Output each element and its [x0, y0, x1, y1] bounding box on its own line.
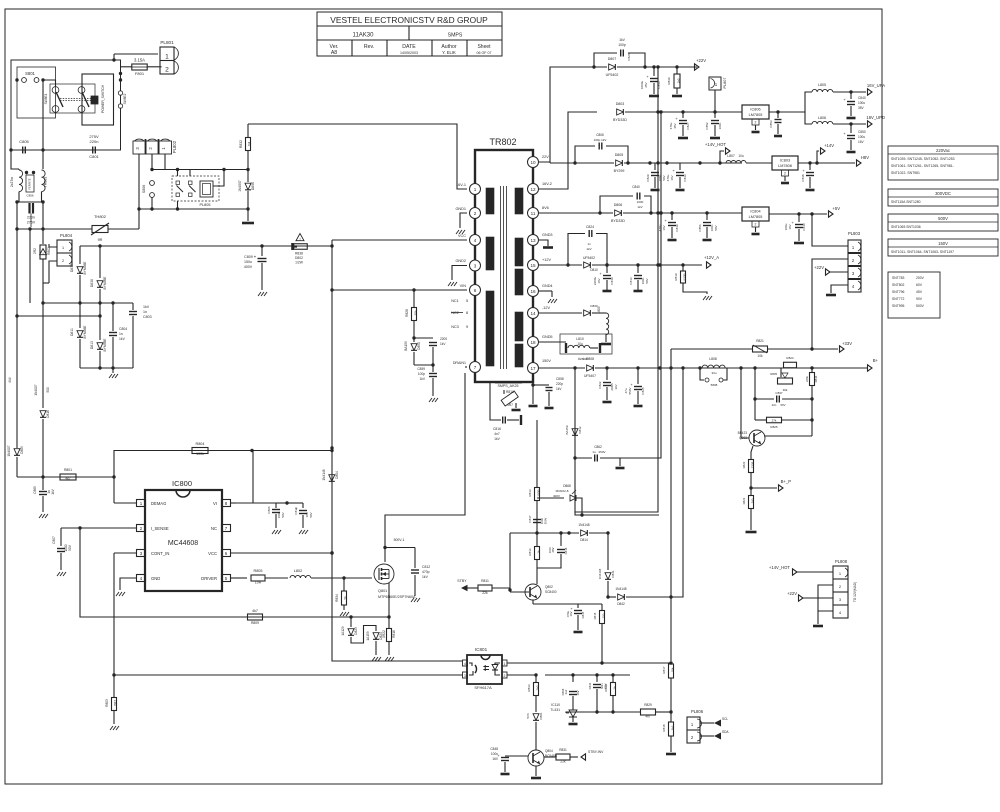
svg-text:1kV: 1kV [614, 384, 618, 389]
diode D806 1N4007 [245, 183, 251, 190]
svg-text:UF5402: UF5402 [583, 256, 595, 260]
svg-text:L809: L809 [597, 306, 601, 313]
resistor R818 2k2 [669, 722, 674, 736]
svg-text:C812: C812 [422, 565, 430, 569]
svg-text:D808: D808 [586, 357, 594, 361]
svg-text:25V: 25V [644, 82, 648, 87]
svg-text:C840: C840 [858, 96, 866, 100]
resistor R834 2k [343, 578, 345, 591]
svg-text:GND1: GND1 [455, 207, 466, 211]
svg-text:C822: C822 [598, 381, 602, 389]
wire +12V_A branch [660, 264, 702, 266]
wire Q803 base rail [741, 368, 749, 438]
svg-text:90V: 90V [916, 297, 923, 301]
diode D842 1N4148 [608, 596, 616, 598]
svg-text:220n: 220n [27, 216, 35, 220]
capacitor C812 470p 1kV [385, 547, 415, 549]
svg-text:2x27m: 2x27m [10, 177, 14, 187]
svg-text:4k7: 4k7 [252, 609, 258, 613]
table 220Vac models [888, 146, 998, 180]
svg-text:10k: 10k [414, 310, 418, 316]
wire opto output [507, 662, 671, 664]
wire PL802 pin2 [151, 154, 153, 170]
svg-text:10k: 10k [757, 354, 763, 358]
svg-text:1A129: 1A129 [341, 626, 345, 635]
wire CONT_IN rail [113, 553, 115, 675]
wire VCC [231, 552, 332, 554]
svg-text:S801: S801 [25, 71, 35, 76]
svg-text:I_SENSE: I_SENSE [151, 526, 169, 531]
capacitor C818 100n 28V [560, 533, 562, 546]
arrow +33V [840, 346, 845, 352]
wire PL802 pin1 [164, 154, 166, 170]
svg-text:47u: 47u [624, 388, 628, 393]
capacitor C819 NNn 50V loop [597, 674, 630, 676]
svg-text:BF423: BF423 [738, 431, 748, 435]
capacitor C860 220p 1kV [532, 382, 534, 388]
resistor R803 2M2 [113, 675, 115, 697]
svg-text:C865: C865 [33, 486, 37, 494]
capacitor C859 100p 1kV [432, 365, 434, 372]
svg-text:1k: 1k [613, 686, 617, 690]
svg-text:TR802: TR802 [489, 137, 516, 147]
table 500V models [888, 214, 998, 231]
wire Q802 base STBY [510, 591, 529, 593]
arrow +5V [829, 211, 834, 217]
transistor Q802 BC8400 [525, 584, 541, 600]
wire VCC rail vertical [332, 240, 462, 661]
svg-text:100k: 100k [196, 452, 204, 456]
mosfet Q801 MTP6N60E [374, 564, 394, 584]
TR801 ferrite core [26, 175, 34, 192]
svg-text:C833: C833 [683, 174, 687, 182]
svg-text:100u: 100u [491, 752, 498, 756]
svg-text:R825: R825 [770, 425, 778, 429]
svg-text:150: 150 [602, 613, 606, 618]
arrow +14V_HOT [718, 161, 721, 164]
svg-text:50V: 50V [68, 544, 72, 551]
svg-text:+22V: +22V [696, 58, 706, 63]
TR802 pin 1 16V-1 [470, 184, 481, 195]
svg-text:C839: C839 [675, 224, 679, 232]
wire 8V6 rail [539, 212, 613, 214]
svg-text:220p: 220p [556, 382, 563, 386]
capacitor C808 220n 275V [28, 203, 30, 214]
wire Q803 emitter divider [751, 446, 753, 460]
diode D809 1N4007 on left rail [14, 449, 20, 456]
svg-text:B+: B+ [873, 358, 879, 363]
IC801 led [495, 663, 500, 665]
svg-text:1kV: 1kV [422, 575, 429, 579]
svg-text:8V6: 8V6 [542, 206, 549, 210]
svg-text:R838: R838 [295, 252, 303, 256]
resistor R825 27k [755, 419, 766, 421]
svg-text:CONT_IN: CONT_IN [151, 551, 169, 556]
svg-text:SMPS: SMPS [448, 33, 463, 39]
svg-text:400V: 400V [244, 265, 253, 269]
svg-text:R809: R809 [251, 621, 259, 625]
resistor R801 4k7 [60, 474, 76, 480]
svg-text:IC806: IC806 [750, 108, 760, 112]
svg-text:1N4007: 1N4007 [34, 384, 38, 395]
resistor R824 [784, 362, 797, 368]
svg-text:C837: C837 [775, 391, 783, 395]
svg-text:200V: 200V [916, 276, 925, 280]
svg-text:IC803: IC803 [780, 159, 790, 163]
svg-text:C853: C853 [769, 120, 773, 128]
svg-text:C827: C827 [686, 122, 690, 130]
capacitor C822 2KB 1kV [606, 368, 608, 380]
svg-text:360: 360 [751, 498, 755, 503]
svg-text:L806: L806 [818, 116, 826, 120]
ground [666, 753, 676, 756]
svg-text:250V: 250V [598, 450, 605, 454]
svg-text:LM7808: LM7808 [778, 164, 792, 168]
svg-text:14: 14 [530, 311, 536, 316]
svg-text:100n: 100n [718, 122, 722, 129]
capacitor C804 1n 1kV [112, 330, 114, 331]
svg-text:16: 16 [530, 289, 536, 294]
svg-text:7: 7 [474, 365, 477, 370]
capacitor C806b 100p 1kV bypass [575, 146, 595, 163]
svg-text:22V: 22V [542, 155, 549, 159]
svg-text:R822: R822 [742, 461, 746, 468]
svg-text:R813: R813 [528, 489, 532, 497]
svg-text:D803: D803 [616, 102, 625, 106]
svg-text:14/05/2003: 14/05/2003 [400, 51, 418, 55]
svg-text:STBY: STBY [457, 579, 467, 583]
TR802 pin 3 GND2 [470, 260, 481, 271]
svg-text:BA159: BA159 [404, 341, 408, 351]
wire sense vertical [536, 420, 538, 475]
capacitor C803b 2u2 16V [572, 675, 574, 682]
svg-text:45V: 45V [916, 290, 923, 294]
svg-text:GND5: GND5 [542, 335, 553, 339]
svg-text:PL805: PL805 [200, 203, 211, 207]
svg-text:+14V_HOT: +14V_HOT [705, 142, 727, 147]
svg-text:1kV: 1kV [420, 377, 426, 381]
svg-text:R810: R810 [506, 390, 514, 394]
IC800 pin 6 VCC [222, 550, 231, 557]
TR802 pin 12 16V-2 [528, 184, 539, 195]
diode D850 BA159 [411, 344, 417, 351]
wire snubber bottom [414, 364, 433, 366]
svg-text:220R: 220R [751, 462, 755, 469]
resistor R817 10k [669, 664, 674, 678]
svg-text:275V: 275V [27, 221, 36, 225]
svg-text:R804: R804 [195, 442, 204, 446]
svg-text:1N4148: 1N4148 [578, 523, 589, 527]
wire PL806 pin2 SDA [700, 735, 714, 737]
svg-text:R833: R833 [527, 684, 531, 692]
inductor L810 10u [560, 334, 612, 354]
svg-text:2M2: 2M2 [114, 700, 118, 706]
wire PL808 grounds [818, 585, 833, 611]
svg-text:L807: L807 [727, 154, 735, 158]
svg-text:22k: 22k [560, 760, 566, 764]
ground [411, 598, 414, 602]
svg-text:R823: R823 [742, 497, 746, 504]
diode D808 UF5407 [587, 365, 594, 371]
svg-text:1000u: 1000u [640, 80, 644, 89]
svg-text:220Vac: 220Vac [936, 148, 950, 153]
svg-text:16V-1: 16V-1 [456, 183, 466, 187]
svg-text:500: 500 [46, 387, 50, 393]
svg-text:1kV: 1kV [440, 342, 446, 346]
svg-text:MTP6N60E/2SP7N60A: MTP6N60E/2SP7N60A [378, 595, 416, 599]
svg-text:C850: C850 [858, 130, 866, 134]
svg-text:D811: D811 [70, 328, 74, 336]
resistor R813 100R [536, 475, 538, 487]
svg-text:D806: D806 [251, 182, 255, 190]
wire Q803 left rail [754, 368, 756, 420]
svg-text:D838: D838 [90, 279, 94, 287]
svg-text:6: 6 [474, 288, 477, 293]
svg-text:1kV: 1kV [586, 247, 591, 251]
svg-text:1000: 1000 [637, 200, 644, 204]
svg-text:TO 12V(MAD): TO 12V(MAD) [853, 582, 857, 602]
svg-text:400V: 400V [553, 494, 560, 498]
connector PL807 [709, 77, 721, 90]
capacitor C845 470u 16V [533, 603, 578, 605]
diode D805 BY299 [616, 160, 623, 166]
svg-text:VESTEL ELECTRONICSTV R&D GROUP: VESTEL ELECTRONICSTV R&D GROUP [330, 15, 488, 25]
svg-text:5: 5 [466, 299, 468, 303]
svg-text:SNT802: SNT802 [892, 283, 905, 287]
svg-text:2: 2 [755, 223, 757, 227]
svg-text:D802: D802 [295, 256, 303, 260]
svg-text:150u: 150u [244, 260, 252, 264]
capacitor C825 550V 47u [637, 368, 639, 384]
wire 16V-2 rail [539, 112, 597, 189]
arrow 16V_UPD [868, 121, 873, 127]
IC801 pins [463, 660, 468, 666]
wire I_SENSE [61, 527, 136, 529]
resistor R831 22k [544, 756, 556, 758]
svg-text:C804: C804 [119, 327, 127, 331]
wire R804 feedback [114, 450, 332, 452]
pot R835 30k [780, 368, 782, 377]
svg-text:1N4007: 1N4007 [7, 445, 11, 456]
svg-text:+14V: +14V [824, 143, 834, 148]
svg-text:Y. ELIK: Y. ELIK [442, 50, 456, 55]
capacitor C816 4n7 1kV [490, 382, 501, 420]
svg-text:17: 17 [530, 366, 536, 371]
svg-text:1k0: 1k0 [677, 78, 681, 83]
wire Q801 drain [385, 373, 465, 562]
svg-text:S806: S806 [142, 185, 146, 193]
wire left sense rail [16, 229, 18, 448]
svg-text:L805: L805 [818, 83, 826, 87]
diode D830 [584, 310, 591, 316]
svg-text:10u: 10u [738, 154, 744, 158]
diode D817 BYM56E [79, 246, 81, 264]
capacitor C826 100p 1kV bypass [594, 53, 617, 67]
capacitor C843 1000u 25V [653, 67, 655, 76]
wire main DC bus [80, 245, 332, 247]
svg-text:1k: 1k [537, 550, 541, 554]
svg-text:L802: L802 [294, 569, 302, 573]
svg-text:R802: R802 [47, 247, 51, 255]
wire after IC804 [769, 213, 827, 215]
svg-text:+14V_HOT: +14V_HOT [769, 565, 791, 570]
IC800 pin 4 GND [137, 575, 146, 582]
svg-text:PL807: PL807 [723, 78, 727, 89]
arrow +8V [857, 160, 862, 166]
wire opto line [114, 674, 462, 676]
svg-text:R811: R811 [481, 579, 489, 583]
degauss coil assembly PL805 [172, 176, 219, 201]
arrow +14V [817, 151, 819, 163]
svg-text:1M: 1M [248, 141, 252, 146]
svg-text:C859: C859 [417, 367, 425, 371]
svg-text:R831: R831 [559, 748, 567, 752]
wire rail B+ to D842 [634, 368, 683, 597]
capacitor C846 100u 16V [505, 755, 528, 757]
svg-text:GND3: GND3 [542, 233, 553, 237]
capacitor C850a 100u 16V [850, 124, 852, 133]
svg-text:C806: C806 [596, 133, 604, 137]
capacitor C829 100n 50V [654, 163, 656, 170]
wire PL806 pin1 SCL [700, 722, 714, 724]
svg-text:50V: 50V [781, 403, 786, 407]
wire DEMAG rail [113, 450, 115, 503]
capacitor C854 100n [706, 213, 708, 220]
svg-text:4n7: 4n7 [494, 432, 500, 436]
capacitor C849 1000 1kV bypass [600, 196, 633, 213]
svg-text:UF5407: UF5407 [584, 374, 596, 378]
svg-text:IC804: IC804 [750, 210, 760, 214]
svg-text:C841: C841 [588, 682, 592, 689]
svg-text:R824: R824 [786, 356, 794, 360]
svg-text:16V: 16V [662, 225, 666, 230]
zener D823 1A129 [350, 617, 352, 627]
TR802 windings primary [486, 188, 494, 214]
TR802 pin 16 GND4 [528, 286, 539, 297]
svg-text:2: 2 [165, 67, 169, 74]
resistor R829 4k7 [613, 711, 640, 713]
ground [39, 514, 42, 518]
wire right winding down [42, 202, 44, 229]
svg-text:1u: 1u [592, 450, 596, 454]
wire degauss top [152, 169, 248, 171]
svg-text:C845: C845 [581, 611, 585, 618]
svg-text:BYM56E: BYM56E [103, 338, 107, 352]
diode D841 1N4148 [607, 533, 609, 570]
svg-text:R818: R818 [662, 724, 666, 732]
svg-text:16V_UPA: 16V_UPA [867, 83, 885, 88]
wires PL804 [49, 244, 57, 247]
svg-text:220n: 220n [90, 139, 99, 144]
fusible resistor R838 1/2W [294, 244, 308, 250]
svg-text:470u: 470u [666, 174, 670, 181]
svg-text:D868: D868 [563, 484, 571, 488]
svg-text:2: 2 [755, 121, 757, 125]
wire error amp row [510, 532, 579, 534]
svg-text:SNT1061- SNT1261- SNT1265-: SNT1061- SNT1261- SNT1265- SNT981- [891, 164, 954, 168]
ground [109, 374, 112, 378]
wire PL803 pin2 sense [812, 259, 848, 349]
svg-text:C806: C806 [26, 194, 34, 198]
svg-text:D810: D810 [590, 268, 598, 272]
svg-text:500V: 500V [938, 216, 948, 221]
svg-text:R817: R817 [662, 666, 666, 674]
svg-text:SFH617A: SFH617A [474, 685, 492, 690]
svg-text:+12V_A: +12V_A [704, 255, 719, 260]
svg-text:TR801: TR801 [44, 177, 48, 188]
capacitor C833 470u 16V [679, 163, 681, 170]
wire PL807 to 16V [714, 90, 716, 112]
svg-text:PL803: PL803 [848, 231, 861, 236]
IC800 pin 2 I_SENSE [137, 525, 146, 532]
wire DEMAG [114, 502, 136, 504]
wire STBY input [461, 585, 468, 591]
svg-text:C854: C854 [698, 224, 702, 232]
svg-text:8: 8 [466, 311, 468, 315]
svg-text:A8: A8 [331, 50, 337, 56]
ground IC800 GND [120, 578, 136, 590]
svg-text:NC: NC [211, 526, 217, 531]
wire opto to TL431 [545, 674, 597, 676]
inductor L806 [805, 112, 812, 124]
svg-text:470p: 470p [422, 570, 430, 574]
ground [703, 296, 706, 300]
svg-text:06 OF 07: 06 OF 07 [477, 51, 492, 55]
svg-text:STBY-INV: STBY-INV [588, 750, 604, 754]
diode D814 1N4148 [581, 530, 588, 536]
svg-text:GND: GND [151, 576, 160, 581]
svg-text:D812: D812 [578, 426, 582, 434]
svg-text:150V: 150V [938, 241, 948, 246]
wire PL803 pin1 from +5V [812, 214, 848, 246]
svg-text:16V: 16V [670, 175, 674, 180]
svg-text:DATE: DATE [402, 44, 416, 50]
table voltage list [888, 272, 940, 318]
svg-text:BYD33D: BYD33D [611, 219, 625, 223]
fusible resistor R802 [42, 229, 44, 244]
arrow B+ [868, 365, 873, 371]
svg-text:VCC: VCC [458, 234, 466, 238]
wire left rail top [16, 202, 18, 229]
svg-text:13: 13 [530, 238, 536, 243]
svg-text:Q803: Q803 [739, 436, 747, 440]
svg-text:620R: 620R [683, 273, 687, 281]
svg-text:IC800: IC800 [172, 479, 192, 488]
svg-text:100p: 100p [418, 372, 425, 376]
capacitor C803 1kV 1n [132, 303, 134, 310]
svg-text:D805: D805 [615, 153, 624, 157]
wire PL801 pin1 down [113, 54, 115, 60]
svg-text:2R2: 2R2 [33, 248, 37, 254]
diode D814 1N4007 [42, 303, 44, 408]
svg-text:H8V: H8V [861, 155, 869, 160]
svg-text:LM7805: LM7805 [749, 215, 763, 219]
wire degauss coil out [213, 170, 224, 187]
zener D801 5V6 [533, 714, 539, 721]
svg-text:5808: 5808 [711, 383, 718, 387]
svg-text:470u: 470u [669, 122, 673, 129]
wire TL431 ref row [566, 712, 613, 713]
svg-text:9R: 9R [98, 238, 103, 242]
svg-text:100n: 100n [548, 546, 552, 553]
wire after IC806 [769, 111, 805, 113]
svg-text:22k: 22k [482, 591, 488, 595]
resistor R814 1k [536, 533, 538, 546]
thermistor TH802 [17, 228, 92, 230]
TR802 pin 13 GND3 [528, 235, 539, 246]
TR802 pin 15 +12V [528, 260, 539, 271]
resistor R839 1k [612, 675, 614, 682]
